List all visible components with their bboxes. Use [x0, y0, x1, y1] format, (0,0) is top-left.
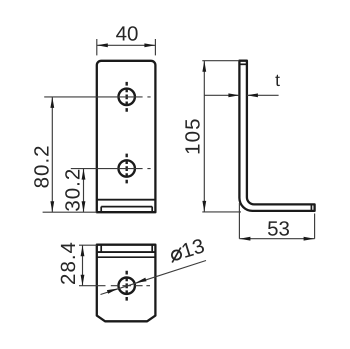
dimension 105 arrow bottom	[202, 201, 206, 212]
svg-text:53: 53	[267, 217, 290, 240]
dimension 105 top extension	[202, 60, 239, 62]
hole H2 vertical centerline	[125, 154, 127, 184]
dimension 40 arrow right	[144, 43, 155, 47]
dimension 40 extension left	[96, 39, 98, 55]
leader arrow upper right	[135, 278, 146, 283]
leader arrow lower left	[107, 289, 118, 294]
svg-text:105: 105	[182, 117, 205, 155]
side view L profile outline	[239, 61, 314, 211]
hole H1 vertical centerline	[125, 82, 127, 112]
dimension 105 line	[203, 61, 205, 212]
front view flange inner left vertical	[100, 207, 102, 213]
dimension t arrow left	[228, 93, 239, 97]
front view flange inner edge	[101, 206, 152, 208]
bottom view bend line 1	[97, 251, 156, 253]
hole H2 lower	[119, 160, 135, 176]
bottom view body outline	[97, 245, 156, 322]
dimension t line right	[247, 94, 279, 96]
dimension 30.2 arrow bottom	[82, 201, 86, 212]
dimension 53 extension right	[314, 214, 316, 239]
dimension 40 line	[97, 44, 156, 46]
dimension 53 line	[239, 238, 314, 240]
hole H3 vertical centerline	[125, 271, 127, 301]
dimension 28.4 arrow bottom	[81, 275, 85, 286]
hole H2 horizontal centerline / ext of 30.2	[71, 168, 151, 170]
dimension 53 extension left	[238, 203, 240, 239]
dimension 53 arrow right	[304, 237, 315, 241]
leader line for hole diameter	[101, 261, 207, 295]
diameter symbol	[169, 248, 185, 263]
dimension 80.2 arrow top	[50, 97, 54, 108]
hole H1 top	[119, 89, 135, 105]
svg-text:t: t	[275, 70, 280, 90]
svg-text:30.2: 30.2	[62, 168, 85, 212]
bottom view inner right vertical	[151, 245, 153, 252]
svg-text:40: 40	[116, 23, 139, 46]
dimension t arrow right	[247, 93, 258, 97]
dimension 30.2 line	[83, 169, 85, 213]
front view bend line	[97, 199, 156, 201]
bottom extension line front view	[43, 211, 97, 213]
hole H1 horizontal centerline / ext of 80.2	[44, 96, 150, 98]
front view body outline	[97, 61, 156, 212]
hole H3 horizontal centerline / ext of 28.4	[79, 285, 150, 287]
dimension 80.2 line	[51, 97, 53, 212]
dimension 28.4 line	[82, 245, 84, 286]
svg-text:80.2: 80.2	[31, 144, 54, 188]
dimension 105 arrow top	[202, 61, 206, 72]
dimension t line left	[204, 94, 239, 96]
bottom view bend line 2	[97, 256, 156, 258]
side view leg end inner line	[310, 204, 312, 211]
dimension 28.4 top extension	[79, 244, 97, 246]
dimension 53 arrow left	[239, 237, 250, 241]
dimension 105 bottom extension	[202, 211, 241, 213]
dimension 30.2 arrow top	[82, 169, 86, 180]
dimension 28.4 arrow top	[81, 245, 85, 256]
hole H3 bottom view	[119, 278, 135, 294]
front view flange inner right vertical	[151, 207, 153, 213]
dimension 80.2 arrow bottom	[50, 201, 54, 212]
side view top edge inner line	[239, 63, 247, 65]
dimension 40 extension right	[154, 39, 156, 55]
svg-text:28.4: 28.4	[57, 241, 80, 285]
dimension 40 arrow left	[97, 43, 108, 47]
bottom view inner left vertical	[100, 245, 102, 252]
